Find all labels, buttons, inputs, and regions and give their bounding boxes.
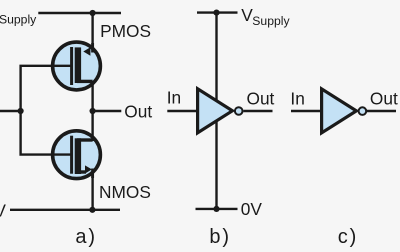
wire: supply bus (b)	[215, 13, 217, 209]
wire: Out stub (a)	[93, 110, 122, 112]
svg-text:Out: Out	[124, 101, 152, 121]
wire: Out (c)	[367, 110, 396, 112]
junction: NMOS source to 0V rail	[89, 207, 95, 213]
transistor NMOS	[53, 131, 101, 179]
svg-text:Out: Out	[370, 88, 398, 108]
junction: input to gate bus	[18, 108, 24, 114]
junction: 0V rail (b)	[213, 206, 219, 212]
svg-text:a): a)	[75, 226, 96, 248]
wire: 0V rail (a)	[10, 209, 120, 211]
wire: Out node to NMOS drain	[91, 111, 93, 141]
svg-text:In: In	[167, 88, 181, 108]
svg-text:Supply: Supply	[0, 12, 37, 26]
svg-text:0V: 0V	[0, 201, 6, 221]
svg-text:In: In	[290, 89, 304, 109]
label V_Supply (a, V clipped off left edge)	[0, 4, 37, 27]
svg-text:0V: 0V	[241, 199, 263, 219]
transistor PMOS	[53, 42, 101, 90]
wire: PMOS source lead	[91, 13, 93, 48]
wire: Out (b)	[243, 110, 272, 112]
bubble (c)	[359, 107, 367, 115]
wire: NMOS source to 0V rail	[91, 172, 93, 210]
wire: 0V rail (b)	[196, 208, 238, 210]
svg-text:Supply: Supply	[252, 14, 290, 28]
wire: gate bus connecting both gates	[21, 66, 71, 155]
svg-text:PMOS: PMOS	[100, 21, 151, 41]
wire: PMOS drain to Out node	[91, 81, 93, 111]
svg-text:c): c)	[338, 226, 358, 248]
svg-text:Out: Out	[247, 88, 275, 108]
inverter triangle U2 (c)	[322, 89, 357, 133]
junction: supply rail (b)	[213, 10, 219, 16]
wire: V_Supply rail (b)	[197, 11, 238, 13]
junction: supply rail to PMOS source	[90, 10, 96, 16]
wire: input from left edge	[0, 110, 21, 112]
wire: In (c)	[291, 110, 322, 112]
bubble (b)	[235, 107, 243, 115]
wire: V_Supply rail (a)	[38, 12, 121, 14]
label V_Supply (b)	[241, 5, 290, 28]
wire: In (b)	[167, 110, 198, 112]
svg-text:NMOS: NMOS	[99, 182, 151, 202]
inverter triangle U1 (b)	[198, 89, 233, 133]
node: Out junction	[90, 108, 96, 114]
svg-text:b): b)	[209, 226, 230, 248]
